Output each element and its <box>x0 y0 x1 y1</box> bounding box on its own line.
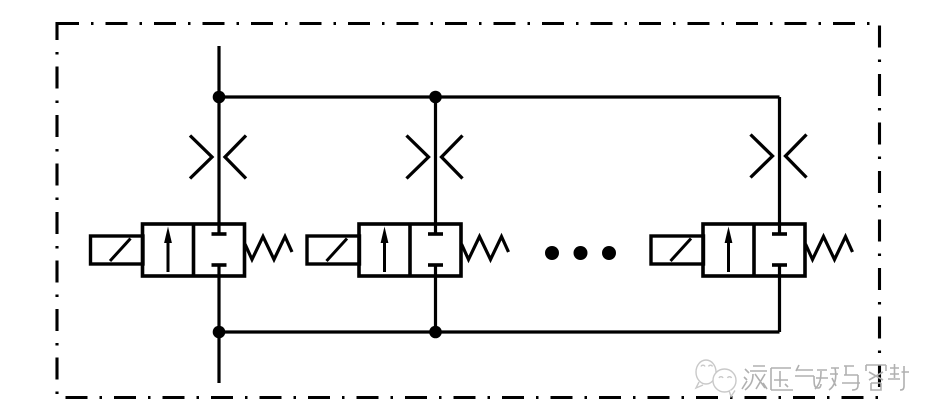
valve V2 blocked port top (pin 1) <box>428 232 443 236</box>
valve V3 blocked port top (pin 1) <box>772 232 787 236</box>
valve V2 blocked port bottom (pin 2) <box>428 263 443 267</box>
valve V1 solenoid coil <box>91 236 144 264</box>
valve V2 body (2-position envelope) <box>359 224 461 276</box>
throttle (restrictor) RS3 <box>751 135 807 178</box>
wire: branch 1 upper segment <box>217 97 220 234</box>
wire: bottom bus <box>219 330 780 333</box>
valve V2 return spring <box>462 237 509 260</box>
气 <box>795 365 821 388</box>
node junction bottom bus / branch 2 <box>429 326 442 339</box>
封 <box>888 364 909 390</box>
valve V1 return spring <box>245 237 292 260</box>
压 <box>771 368 793 390</box>
valve V1 blocked port bottom (pin 2) <box>212 263 227 267</box>
wire: branch 3 upper segment <box>778 97 781 234</box>
wire: branch 2 lower segment <box>434 265 437 332</box>
watermark logo (chat bubbles) <box>696 360 736 397</box>
valve V3 return spring <box>806 237 853 260</box>
enclosure border (dash-dot assembly boundary) <box>57 24 880 398</box>
watermark text 液压气动与密封 (stylised strokes) <box>742 364 909 390</box>
node junction top bus / branch 2 <box>429 91 442 104</box>
valve V1 flow-path arrow (open position) <box>164 227 172 273</box>
动 <box>815 368 839 390</box>
throttle (restrictor) RS1 <box>190 136 246 179</box>
wire: top bus <box>219 95 780 98</box>
throttle (restrictor) RS2 <box>407 136 463 179</box>
液 <box>742 366 767 390</box>
wire: outlet stub below bottom bus (port A) <box>217 332 220 383</box>
wire: branch 1 lower segment <box>217 265 220 332</box>
valve V3 flow-path arrow (open position) <box>725 227 733 273</box>
ellipsis: additional identical branches <box>545 246 616 260</box>
与 <box>842 366 860 390</box>
wire: branch 3 lower segment <box>778 265 781 332</box>
wire: supply stub above top bus (port P) <box>217 46 220 97</box>
node junction top bus / branch 1 <box>213 91 226 104</box>
valve V3 body (2-position envelope) <box>703 224 805 276</box>
密 (crosses border) <box>866 365 886 390</box>
wire: branch 2 upper segment <box>434 97 437 234</box>
valve V2 flow-path arrow (open position) <box>381 227 389 273</box>
node junction bottom bus / branch 1 <box>213 326 226 339</box>
valve V3 blocked port bottom (pin 2) <box>772 263 787 267</box>
valve V2 solenoid coil <box>307 236 360 264</box>
valve V1 blocked port top (pin 1) <box>212 232 227 236</box>
valve V3 solenoid coil <box>651 236 704 264</box>
valve V1 body (2-position envelope) <box>143 224 245 276</box>
